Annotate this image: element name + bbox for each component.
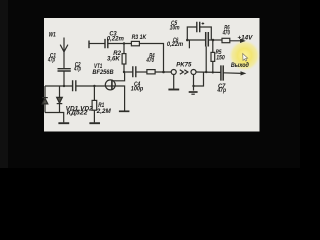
resistor R4 [147,70,155,74]
schematic white paper [44,18,260,132]
wire C7 to output arrow [223,72,242,75]
svg-text:47p: 47p [73,65,81,72]
capacitor C4 [133,66,136,77]
resistor R6 [222,38,230,42]
svg-text:100p: 100p [131,85,144,92]
capacitor C2 [73,80,76,91]
diode VD2 [57,97,63,103]
svg-text:3,6K: 3,6K [107,55,120,62]
wire R3 to riser [139,44,163,73]
svg-text:Выход: Выход [231,61,249,69]
stub at node [188,40,190,48]
transistor VT1 [105,80,115,90]
svg-text:0,22m: 0,22m [107,36,125,43]
capacitor C7 [221,65,223,80]
capacitor C6 [206,32,209,47]
wire C4 to R4 [136,71,147,73]
junction dots [63,22,247,87]
wire R4 to PK75 [155,71,171,73]
coax chevrons [180,70,188,75]
ground (PK75 left) [173,75,175,89]
svg-text:BF256B: BF256B [92,69,114,76]
antenna W1 [63,38,65,69]
resistor R2 [123,44,125,73]
capacitor C1 [58,69,71,71]
connector circle PK75 right [191,70,196,75]
svg-text:470: 470 [222,29,230,36]
ground (PK75 right shield) [193,86,195,91]
svg-text:R3 1K: R3 1K [132,34,147,41]
node C5/C6 [186,39,189,42]
svg-text:КД522: КД522 [67,110,88,117]
arrow +14V [230,40,241,42]
node drain [123,71,125,73]
capacitor C5 loop [187,27,211,40]
wire node to C6 [187,39,205,41]
svg-text:47p: 47p [47,57,55,64]
svg-text:W1: W1 [49,32,57,39]
wire C3 to R3 with R2 tap [108,43,132,45]
mouse cursor [243,54,248,62]
resistor R3 [131,41,139,45]
plus sign C5 [202,22,205,25]
capacitor C3 [105,39,108,48]
resistor R1 [93,86,95,122]
node shield [192,85,194,87]
riser C6 to coax line [205,47,207,73]
connector circle PK75 left [171,70,176,75]
wire C6 to R6 junction [208,39,222,41]
node R2 top [123,42,125,44]
node antenna/gate [63,85,65,87]
svg-text:470: 470 [146,57,155,64]
wire C3 left terminal [88,41,90,49]
ground (diodes) [58,122,69,124]
wire PK75 right to J1 [196,71,221,73]
arrow output [241,71,247,75]
wire antenna to gate rail [63,71,65,86]
yellow cursor highlight glow [0,0,1,1]
capacitor C5 [197,22,200,33]
diode VD1 [42,97,48,99]
svg-text:2,2M: 2,2M [96,108,112,115]
wire gate rail [45,85,105,87]
black background frame [0,0,300,168]
ground (VT1 source) [119,110,129,112]
node R5 bottom [212,71,214,73]
wire diode bottom rail [45,113,64,123]
node J1 [205,71,207,73]
node gate/R1 [93,85,95,87]
ground (R1) [89,122,100,124]
svg-text:47p: 47p [217,87,227,94]
shield loop [194,72,204,86]
svg-text:0,22m: 0,22m [167,41,184,48]
svg-text:PK75: PK75 [176,61,192,68]
svg-text:150: 150 [216,54,225,61]
wire drain node to C4 [124,71,133,73]
resistor R5 [212,40,214,72]
node riser/coax [162,71,165,74]
svg-text:10m: 10m [170,24,180,31]
wire left drop to diodes [44,86,46,97]
svg-text:+14V: +14V [237,34,253,41]
node R5 top [212,39,215,42]
